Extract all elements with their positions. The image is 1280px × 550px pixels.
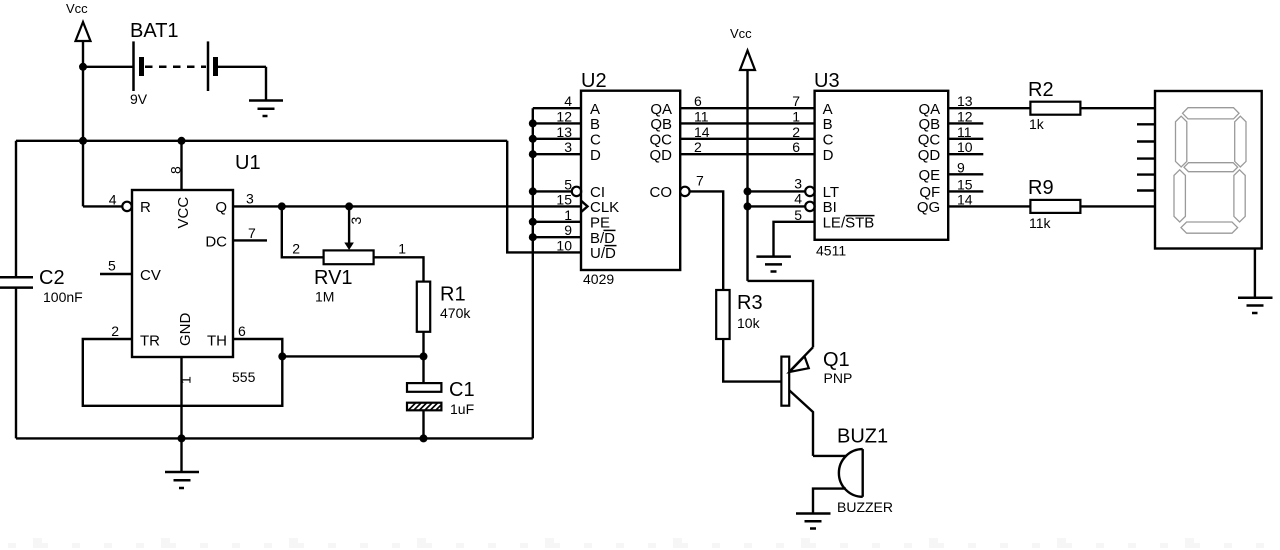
svg-text:3: 3	[348, 217, 364, 225]
svg-text:1M: 1M	[315, 289, 334, 305]
wire R3 to base	[723, 339, 781, 382]
wiper arrowhead	[344, 243, 354, 251]
wire pin 8 to top rail	[180, 141, 182, 190]
svg-text:11k: 11k	[1029, 215, 1052, 231]
wire LT to Vcc	[748, 190, 806, 192]
svg-text:R9: R9	[1028, 177, 1054, 199]
svg-text:U3: U3	[814, 70, 840, 92]
node bus/BD	[529, 233, 537, 241]
ground (battery)	[249, 101, 283, 117]
svg-text:14: 14	[957, 191, 973, 207]
svg-text:1: 1	[792, 108, 800, 124]
ground (display)	[1238, 298, 1273, 313]
U3 right pin numbers	[957, 93, 973, 207]
svg-text:Q: Q	[215, 199, 227, 216]
svg-text:13: 13	[957, 93, 973, 109]
svg-text:4511: 4511	[816, 243, 846, 259]
svg-text:RV1: RV1	[314, 267, 353, 289]
svg-text:VCC: VCC	[175, 197, 192, 229]
display stub pins	[1137, 124, 1155, 190]
wire reset branch to pin 4	[83, 141, 122, 207]
wire Vcc to battery	[83, 66, 134, 68]
wire RV1 wiper	[348, 206, 350, 244]
wire QG to R9	[948, 205, 1030, 207]
node bus/PE	[529, 218, 537, 226]
svg-text:TR: TR	[140, 333, 160, 350]
Q1 emitter arrow (PNP)	[789, 356, 808, 372]
svg-text:2: 2	[792, 124, 800, 140]
U2 right pin names	[650, 101, 673, 201]
svg-text:R: R	[140, 199, 151, 216]
svg-text:7: 7	[696, 172, 704, 188]
segment a	[1183, 108, 1240, 119]
svg-text:6: 6	[792, 139, 800, 155]
svg-text:2: 2	[292, 241, 300, 257]
svg-text:C1: C1	[449, 379, 475, 401]
wire QA to A (U3)	[680, 107, 814, 109]
wire Q output to CLK	[233, 205, 581, 207]
wire GND pin to bottom rail	[180, 357, 182, 438]
clock triangle CLK	[581, 201, 588, 212]
svg-text:DC: DC	[205, 234, 227, 251]
wire bus to B	[533, 122, 581, 124]
svg-text:QD: QD	[650, 147, 673, 164]
svg-text:100nF: 100nF	[43, 289, 83, 305]
svg-text:U1: U1	[235, 152, 261, 174]
power flag Vcc (left)	[66, 1, 91, 67]
wire CO to R3	[690, 191, 724, 290]
segment d	[1181, 222, 1238, 233]
power flag Vcc (middle)	[730, 26, 755, 281]
node Vcc/BI	[744, 202, 752, 210]
7-segment display body	[1155, 91, 1262, 249]
svg-text:1uF: 1uF	[450, 401, 474, 417]
potentiometer RV1 body	[324, 250, 374, 264]
node TH junction	[278, 352, 286, 360]
svg-text:2: 2	[111, 323, 119, 339]
wire QC stub	[948, 138, 983, 140]
svg-text:3: 3	[794, 175, 802, 191]
svg-text:BAT1: BAT1	[130, 20, 179, 42]
svg-text:1: 1	[564, 207, 572, 223]
wire left frame upper	[15, 141, 17, 277]
wire QB to B (U3)	[680, 122, 814, 124]
svg-text:U/D: U/D	[590, 245, 616, 262]
wire bottom rail	[16, 437, 533, 439]
Q1 emitter line	[789, 347, 813, 372]
node top rail / pin8	[178, 137, 186, 145]
counter U2 4029 body	[581, 91, 680, 270]
svg-text:D: D	[823, 147, 834, 164]
svg-text:555: 555	[232, 369, 256, 385]
wire input bus vertical	[532, 108, 534, 438]
svg-text:GND: GND	[177, 313, 194, 347]
svg-text:BUZ1: BUZ1	[837, 426, 888, 448]
capacitor C2	[0, 267, 83, 305]
svg-text:R3: R3	[737, 292, 763, 314]
wire bus to D	[533, 153, 581, 155]
svg-text:R2: R2	[1028, 79, 1054, 101]
svg-text:PNP: PNP	[824, 370, 853, 386]
wire top Vcc rail	[16, 140, 507, 142]
svg-text:U2: U2	[581, 70, 607, 92]
wire bus to PE	[533, 221, 581, 223]
svg-text:Vcc: Vcc	[730, 26, 752, 41]
svg-text:1k: 1k	[1029, 116, 1045, 132]
segment f	[1176, 116, 1187, 167]
pin bubble CO (U2 pin 7)	[680, 187, 689, 196]
wire buzzer to ground	[813, 489, 846, 514]
wire TH junction to R1 bottom	[282, 355, 423, 357]
svg-text:15: 15	[556, 191, 572, 207]
svg-text:Q1: Q1	[823, 349, 850, 371]
svg-text:C2: C2	[39, 267, 65, 289]
wire QD to D (U3)	[680, 153, 814, 155]
battery BAT1	[130, 20, 216, 107]
wire bus to B/D	[533, 236, 581, 238]
wire to RV1 pin 2	[282, 206, 324, 257]
resistor R3 body	[716, 290, 729, 339]
svg-text:4: 4	[564, 93, 572, 109]
svg-text:10k: 10k	[737, 315, 761, 331]
wire QF stub	[948, 190, 983, 192]
svg-text:5: 5	[108, 258, 116, 274]
capacitor C1 (polarized)	[407, 379, 475, 417]
wire TH to junction	[233, 339, 282, 356]
wire TR loop	[83, 339, 282, 406]
svg-text:12: 12	[957, 108, 973, 124]
wire battery to ground	[218, 67, 267, 101]
node RV1 pin2 branch	[278, 202, 286, 210]
svg-text:4029: 4029	[583, 271, 614, 287]
ground (buzzer)	[796, 514, 831, 529]
svg-text:10: 10	[957, 139, 973, 155]
svg-text:4: 4	[794, 190, 802, 206]
wire R1 bottom	[422, 332, 424, 357]
svg-text:9V: 9V	[130, 91, 148, 107]
ground (LE/STB)	[756, 257, 791, 272]
wire gnd stem	[180, 438, 182, 472]
wire display common to ground	[1254, 249, 1256, 298]
svg-text:TH: TH	[207, 333, 227, 350]
segment g	[1184, 163, 1238, 172]
node battery tap	[79, 63, 87, 71]
wire bus to A	[533, 107, 581, 109]
svg-text:7: 7	[792, 93, 800, 109]
svg-text:3: 3	[246, 190, 254, 206]
wire BI to Vcc	[748, 205, 806, 207]
resistor R2 body	[1030, 102, 1080, 115]
wire Vcc vertical down to top rail	[82, 67, 84, 141]
svg-text:QD: QD	[918, 147, 941, 164]
svg-text:1: 1	[178, 376, 194, 384]
wire QD stub	[948, 153, 983, 155]
svg-text:11: 11	[957, 124, 972, 140]
node bottom rail / gnd	[178, 434, 186, 442]
pin bubble CI	[572, 187, 581, 196]
pin bubble BI (pin 4)	[805, 202, 814, 211]
node bottom rail / C1	[420, 434, 428, 442]
wire Vcc corner to emitter	[748, 281, 814, 347]
svg-text:CV: CV	[140, 267, 161, 284]
svg-text:1: 1	[398, 241, 406, 257]
pin bubble LT (pin 3)	[805, 187, 814, 196]
wire QB stub	[948, 122, 983, 124]
svg-text:6: 6	[238, 323, 246, 339]
svg-text:D: D	[590, 147, 601, 164]
svg-text:10: 10	[556, 237, 572, 253]
svg-text:R1: R1	[440, 284, 466, 306]
wire LE/STB to ground	[774, 222, 815, 257]
wire U/D tie to top rail	[507, 141, 581, 253]
svg-text:15: 15	[957, 176, 973, 192]
U3 left pin names	[823, 101, 875, 232]
svg-text:14: 14	[694, 124, 710, 140]
wire RV1 pin1 to R1	[374, 257, 424, 281]
wire R9 to display	[1080, 205, 1155, 207]
svg-text:BUZZER: BUZZER	[837, 499, 893, 515]
svg-text:5: 5	[564, 176, 572, 192]
U3 right pin names	[917, 101, 941, 216]
decoder U3 4511 body	[815, 91, 949, 240]
wire R2 to display	[1080, 107, 1155, 109]
node bus/CI	[529, 187, 537, 195]
resistor R9 body	[1030, 200, 1080, 213]
node Vcc/LT	[744, 187, 752, 195]
svg-text:9: 9	[564, 222, 572, 238]
svg-text:9: 9	[957, 159, 965, 175]
svg-text:2: 2	[694, 139, 702, 155]
svg-text:5: 5	[794, 207, 802, 223]
wire QC to C (U3)	[680, 138, 814, 140]
node R1/C1/TH junction	[420, 352, 428, 360]
segment b	[1235, 116, 1246, 167]
svg-text:470k: 470k	[440, 305, 471, 321]
node top rail / Vcc	[79, 137, 87, 145]
svg-text:LE/STB: LE/STB	[823, 214, 875, 231]
wire junction to C1	[422, 356, 424, 383]
svg-text:CO: CO	[650, 184, 673, 201]
op-amp U1 555 timer body	[132, 190, 233, 357]
Q1 collector line	[789, 390, 813, 456]
svg-text:3: 3	[564, 139, 572, 155]
wire bus to CI	[533, 190, 572, 192]
svg-text:4: 4	[109, 191, 117, 207]
svg-text:12: 12	[556, 108, 572, 124]
node bus/D	[529, 150, 537, 158]
wire bus to C	[533, 138, 581, 140]
bottom edge marks	[8, 538, 1264, 548]
wire QA to R2	[948, 107, 1030, 109]
svg-text:Vcc: Vcc	[66, 1, 88, 16]
transistor Q1 base bar	[781, 357, 789, 406]
node bus/B	[529, 119, 537, 127]
pin stub CV pin 5	[100, 273, 132, 275]
node bus/C	[529, 135, 537, 143]
svg-text:QE: QE	[919, 167, 941, 184]
resistor R1 body	[417, 282, 430, 332]
segment c	[1234, 170, 1245, 222]
U2 left pin names	[590, 101, 619, 262]
node RV1 wiper branch	[345, 202, 353, 210]
wire QE stub	[948, 173, 983, 175]
svg-text:13: 13	[556, 124, 572, 140]
svg-text:QG: QG	[917, 199, 940, 216]
svg-text:6: 6	[694, 93, 702, 109]
ground (555)	[165, 472, 199, 488]
svg-text:11: 11	[694, 108, 709, 124]
wire left frame lower	[15, 288, 17, 439]
pin stub DC pin 7	[233, 239, 267, 241]
U2 left pin numbers	[556, 93, 572, 253]
svg-text:7: 7	[248, 225, 256, 241]
wire C1 to bottom rail	[422, 410, 424, 438]
wire collector to buzzer	[813, 455, 846, 457]
segment e	[1174, 170, 1185, 222]
buzzer BUZ1	[837, 426, 893, 516]
pin bubble R (555 pin 4)	[122, 202, 131, 211]
